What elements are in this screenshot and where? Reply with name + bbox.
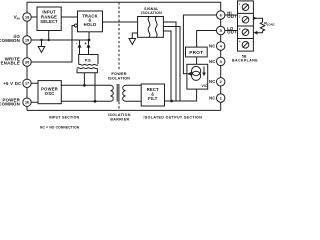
svg-text:NC: NC — [209, 43, 215, 48]
svg-text:17: 17 — [25, 81, 30, 86]
svg-text:2: 2 — [220, 79, 223, 84]
svg-text:5: 5 — [220, 28, 223, 33]
svg-text:COMMON: COMMON — [0, 38, 20, 43]
svg-text:P.S.: P.S. — [85, 58, 92, 63]
svg-text:4: 4 — [239, 41, 241, 44]
svg-text:BARRIER: BARRIER — [110, 117, 129, 121]
svg-text:INPUT SECTION: INPUT SECTION — [49, 115, 80, 119]
svg-text:V/C: V/C — [201, 84, 208, 88]
svg-text:ISOLATION: ISOLATION — [141, 11, 162, 15]
svg-text:4: 4 — [220, 43, 223, 48]
svg-text:POWER: POWER — [111, 72, 126, 76]
svg-text:VIN: VIN — [14, 15, 20, 21]
svg-text:19: 19 — [25, 37, 30, 42]
svg-text:+5 V DC: +5 V DC — [3, 81, 22, 86]
svg-text:HOLD: HOLD — [84, 22, 97, 27]
svg-text:SELECT: SELECT — [40, 19, 58, 24]
svg-text:ENABLE: ENABLE — [1, 61, 20, 66]
svg-text:FILT: FILT — [148, 96, 158, 101]
svg-text:NC: NC — [209, 79, 215, 84]
svg-text:NC = NO CONNECTION: NC = NO CONNECTION — [40, 126, 80, 130]
svg-text:6: 6 — [220, 12, 223, 17]
svg-text:PROT: PROT — [189, 50, 203, 55]
svg-text:ISOLATED OUTPUT SECTION: ISOLATED OUTPUT SECTION — [144, 115, 203, 119]
svg-text:2: 2 — [239, 16, 241, 19]
svg-text:16: 16 — [25, 100, 30, 105]
svg-text:ISOLATION: ISOLATION — [108, 76, 130, 80]
svg-text:RLOAD: RLOAD — [264, 22, 274, 27]
svg-text:BACKPLANE: BACKPLANE — [232, 58, 258, 62]
svg-text:20: 20 — [25, 59, 30, 64]
svg-text:NC: NC — [209, 59, 215, 64]
svg-text:1: 1 — [220, 95, 223, 100]
svg-text:+: + — [84, 41, 87, 46]
svg-text:OSC: OSC — [45, 91, 55, 96]
svg-text:OUT: OUT — [227, 30, 237, 35]
svg-text:1: 1 — [239, 3, 241, 6]
svg-text:-: - — [76, 41, 78, 46]
svg-text:3: 3 — [220, 59, 223, 64]
svg-text:OUT: OUT — [227, 14, 237, 19]
svg-text:COMMON: COMMON — [0, 102, 20, 107]
svg-text:NC: NC — [209, 95, 215, 100]
svg-text:3: 3 — [239, 28, 241, 31]
svg-text:18: 18 — [25, 14, 30, 19]
